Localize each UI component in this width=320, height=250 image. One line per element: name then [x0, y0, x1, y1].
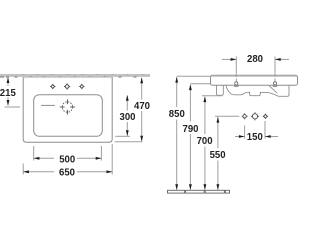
wall band (top, hatched): [0, 74, 150, 78]
svg-text:215: 215: [0, 87, 16, 99]
dim 850: [169, 77, 185, 189]
basin top rim line under wall band: [23, 76, 112, 78]
tap hole symbol right: [79, 84, 84, 89]
dim 700: [197, 97, 213, 190]
mounting circles: [235, 82, 238, 85]
dim 500: [34, 146, 102, 165]
dim 280: [222, 53, 289, 73]
basin outer body (front): [23, 77, 112, 142]
inner detail curve right: [269, 86, 277, 94]
svg-text:300: 300: [120, 111, 136, 123]
inner basin: [34, 95, 103, 137]
dim 790: [183, 85, 199, 190]
svg-text:650: 650: [59, 167, 75, 179]
apron underside: [217, 85, 290, 96]
bumps under slab at centerlines: [234, 85, 238, 86]
slab inner rim line: [212, 76, 297, 78]
svg-text:550: 550: [210, 149, 226, 161]
dim 150: [235, 121, 278, 143]
tap hole symbol left: [50, 84, 55, 89]
overflow line: [41, 104, 55, 106]
middle bigger circle-cross: [251, 112, 259, 120]
dim 300: [115, 95, 135, 136]
left foot: [217, 85, 224, 95]
svg-text:700: 700: [197, 135, 213, 147]
svg-text:790: 790: [183, 123, 199, 135]
floor band: [168, 190, 230, 193]
svg-text:280: 280: [247, 53, 263, 65]
svg-text:470: 470: [134, 100, 150, 112]
right diamond: [263, 114, 268, 119]
tap hole symbol middle: [64, 83, 70, 89]
dim 470: [115, 78, 150, 142]
dim 550: [210, 117, 226, 189]
dim 650: [23, 144, 112, 179]
centerline right (dashed): [274, 74, 276, 88]
ref line 700: [202, 95, 223, 97]
dim 215: [0, 78, 20, 107]
slab (side top): [211, 75, 298, 85]
centerline left (dashed): [235, 74, 237, 88]
drain symbol: [60, 99, 75, 114]
main silhouette: [226, 85, 289, 96]
svg-text:150: 150: [247, 131, 263, 143]
ref line 550: [215, 115, 239, 117]
ref lines 850 / 790: [177, 75, 211, 77]
svg-text:500: 500: [59, 153, 75, 165]
svg-text:850: 850: [169, 108, 185, 120]
small circle-cross: [242, 113, 248, 119]
